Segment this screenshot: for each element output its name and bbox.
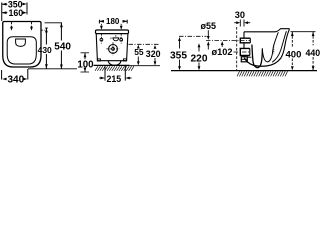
dim 180 <box>98 20 100 24</box>
dim 540 vertical <box>45 22 63 24</box>
outlet centerline <box>234 51 250 53</box>
half-moon inlet <box>113 38 119 41</box>
dim 430 vertical <box>41 29 45 31</box>
svg-text:355: 355 <box>170 50 187 61</box>
hatch <box>95 66 134 71</box>
svg-text:100: 100 <box>77 60 93 71</box>
flush outlet D shape <box>16 39 26 46</box>
bolt holes <box>100 38 103 41</box>
back face segments <box>243 32 245 38</box>
svg-text:430: 430 <box>38 45 52 55</box>
dim 440 <box>312 32 314 45</box>
outlet pipe o102 <box>240 48 250 55</box>
bolt hole dashed lines <box>11 22 13 27</box>
front face and underside <box>244 58 280 66</box>
hatch under side view <box>237 71 288 76</box>
bolt centerlines with down arrows <box>100 26 123 30</box>
svg-text:320: 320 <box>146 49 161 59</box>
svg-text:340: 340 <box>8 75 25 85</box>
svg-text:215: 215 <box>107 74 122 84</box>
floor line side view <box>171 70 317 72</box>
trap bump below <box>108 61 121 65</box>
wall dashed line <box>236 27 238 70</box>
dim 400/440 ext line <box>291 31 316 33</box>
svg-text:ø102: ø102 <box>212 47 233 57</box>
trap dotted <box>273 44 275 54</box>
inner front wall <box>273 32 279 52</box>
svg-text:180: 180 <box>106 17 120 26</box>
floor under front view <box>94 64 130 66</box>
bracket under outlet <box>241 57 247 62</box>
crosshair circle <box>109 45 118 54</box>
dim 340 <box>1 70 3 80</box>
feet <box>97 59 100 61</box>
top view outline <box>3 22 41 68</box>
second centerline <box>179 35 207 37</box>
svg-text:440: 440 <box>306 48 320 58</box>
svg-text:55: 55 <box>134 47 144 57</box>
dim 400 <box>291 32 293 48</box>
dim 215 <box>104 66 106 81</box>
svg-text:400: 400 <box>286 49 302 60</box>
inner bowl <box>7 37 36 64</box>
centerline of inlet <box>206 40 250 42</box>
centerline to right dims <box>129 43 159 45</box>
ext lines top dims <box>1 3 3 22</box>
svg-text:ø55: ø55 <box>201 21 217 31</box>
svg-text:160: 160 <box>9 8 24 18</box>
svg-text:540: 540 <box>54 42 71 53</box>
inlet pipe o55 <box>240 38 250 43</box>
svg-text:30: 30 <box>235 10 245 20</box>
dim 320 <box>154 45 157 65</box>
trap U <box>252 45 263 68</box>
dim 55 <box>137 45 140 66</box>
dim 350 <box>2 3 27 6</box>
body <box>96 34 128 61</box>
top band <box>96 30 129 34</box>
dim 160 <box>2 11 27 14</box>
top surface <box>244 31 276 33</box>
nose <box>276 29 290 32</box>
